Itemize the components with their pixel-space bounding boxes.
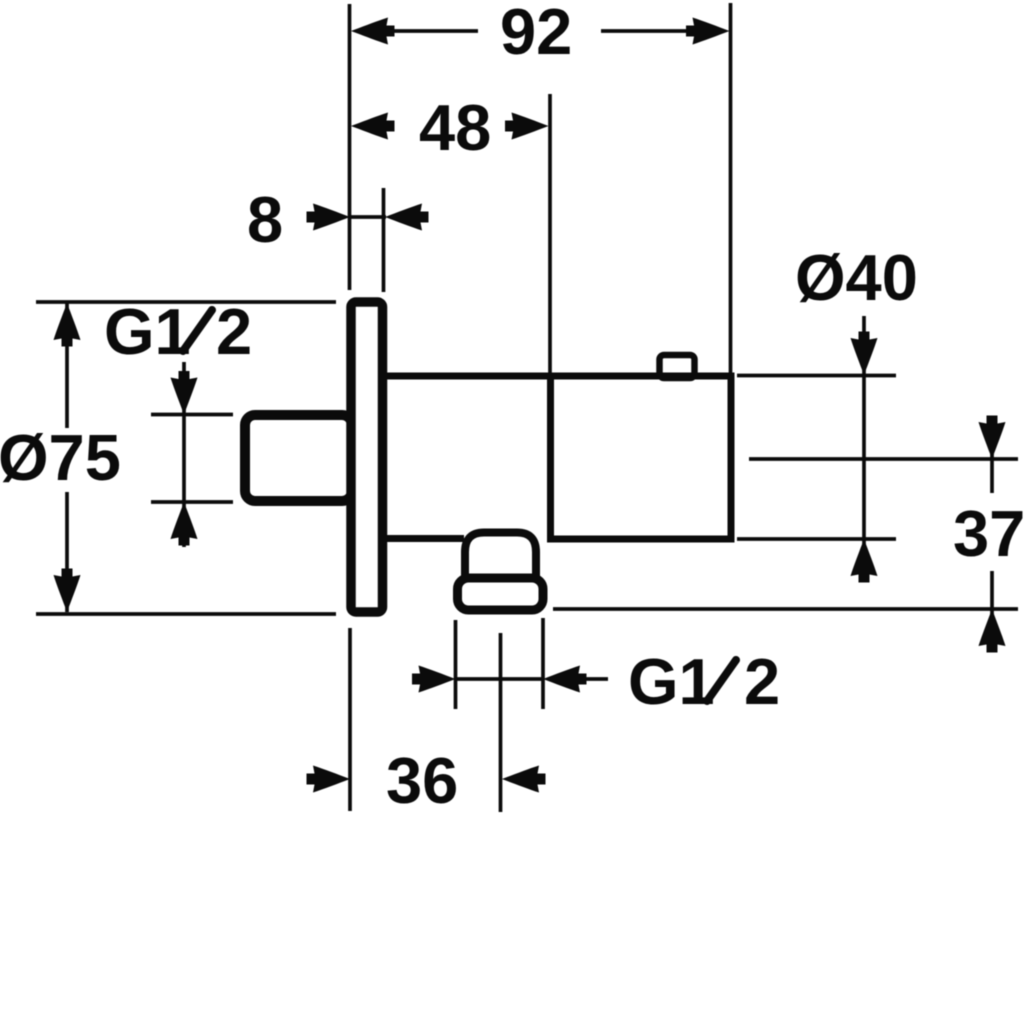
svg-text:8: 8 (247, 183, 283, 256)
svg-text:48: 48 (419, 91, 491, 164)
svg-text:37: 37 (953, 497, 1024, 570)
svg-text:36: 36 (386, 744, 458, 817)
svg-text:G1: G1 (104, 295, 191, 368)
svg-text:2: 2 (216, 295, 252, 368)
svg-text:Ø75: Ø75 (0, 421, 121, 494)
svg-text:92: 92 (500, 0, 572, 68)
svg-text:2: 2 (744, 645, 780, 718)
svg-text:G1: G1 (628, 645, 715, 718)
svg-text:Ø40: Ø40 (795, 241, 918, 314)
